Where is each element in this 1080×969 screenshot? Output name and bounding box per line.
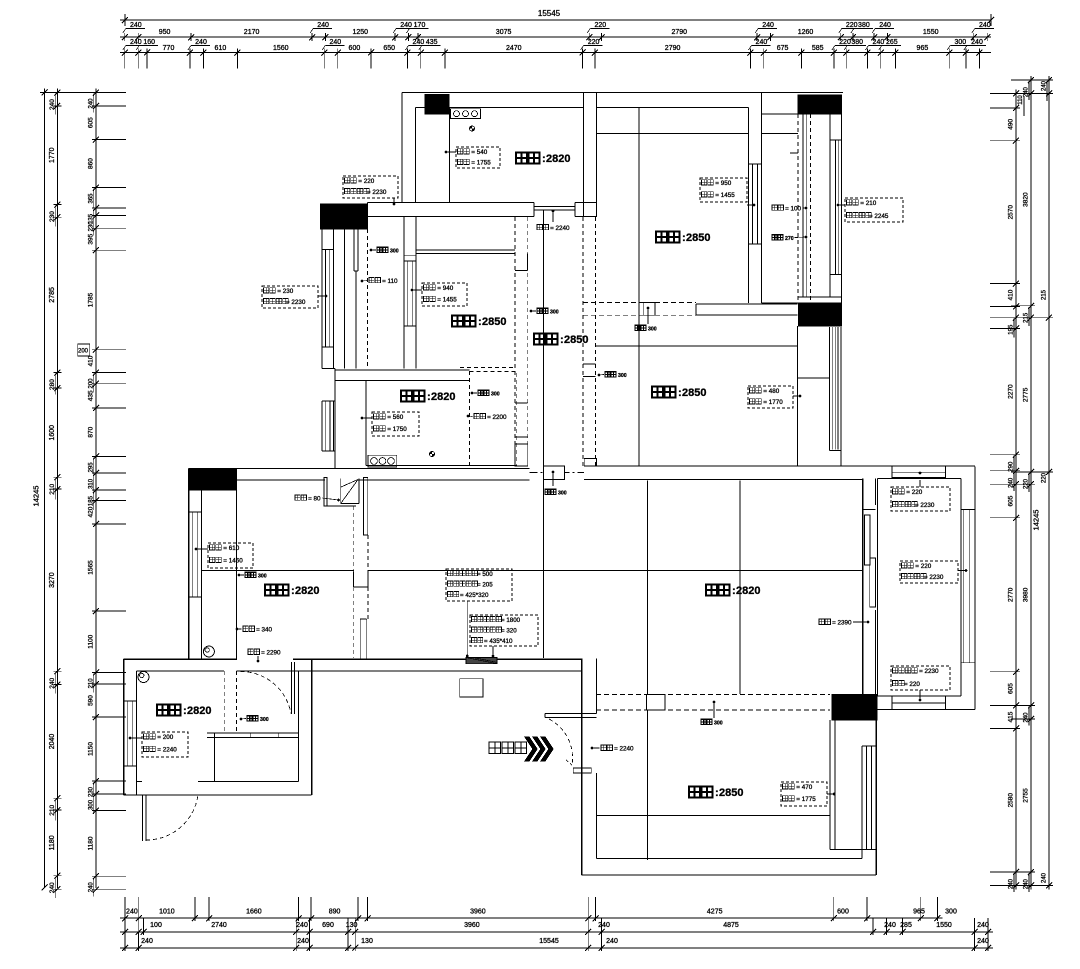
wall: main horizontal band (living top / bedroom2 bottom)	[188, 468, 529, 470]
svg-text:= 540: = 540	[471, 149, 487, 156]
svg-text:1600: 1600	[49, 425, 56, 441]
wall: bottom band	[597, 857, 862, 859]
step near hall2	[584, 459, 596, 466]
study bay window left	[321, 401, 323, 451]
wall: study left	[334, 369, 336, 469]
svg-text:= 220: = 220	[906, 489, 922, 496]
window: bedroom3 right	[862, 745, 876, 747]
beam block	[644, 303, 655, 316]
dimension chain: bottom row 3 total 15545	[120, 947, 993, 949]
right bay window seats	[892, 466, 946, 477]
leader for box1	[393, 198, 395, 204]
svg-text:3270: 3270	[49, 572, 56, 588]
svg-text:2755: 2755	[1023, 788, 1030, 803]
svg-text:240: 240	[598, 922, 610, 929]
svg-text:240: 240	[1009, 878, 1015, 889]
dimension chain: left inner	[95, 89, 97, 889]
svg-text:395: 395	[87, 233, 94, 244]
svg-text:160: 160	[143, 39, 155, 46]
svg-text:240: 240	[1042, 872, 1048, 883]
leader to distribution box 2	[492, 646, 494, 656]
wall: top outer	[402, 92, 843, 94]
svg-text:1180: 1180	[49, 835, 56, 850]
svg-text:3960: 3960	[464, 922, 480, 929]
svg-text:1180: 1180	[87, 836, 94, 850]
kitchen door head	[534, 206, 575, 208]
svg-text:380: 380	[858, 22, 870, 29]
column C5 living top-left	[188, 469, 236, 490]
midleft room bottom dashed	[460, 367, 515, 369]
svg-text:3820: 3820	[1023, 192, 1030, 207]
dimension chain: left total 14245	[44, 89, 46, 889]
dimension chain: right middle	[1030, 76, 1032, 889]
wall: bedroom3 right bay	[829, 720, 831, 850]
window: right bay east	[963, 510, 965, 663]
svg-text:2850: 2850	[682, 387, 706, 399]
free label	[537, 225, 542, 230]
study washbasin	[368, 455, 397, 467]
svg-text:2580: 2580	[1008, 793, 1015, 808]
svg-text:= 100: = 100	[785, 206, 801, 213]
label box	[781, 782, 827, 806]
svg-text:= 2230: = 2230	[915, 502, 935, 509]
svg-text:= 470: = 470	[796, 784, 812, 791]
column C6 bottom-right	[832, 695, 877, 721]
distribution box label 2	[470, 615, 538, 646]
wardrobe dashed rect in study	[469, 371, 516, 465]
label box	[262, 286, 318, 308]
svg-text:300: 300	[558, 491, 567, 497]
svg-text:= 2230: = 2230	[286, 299, 306, 306]
svg-text:240: 240	[297, 938, 309, 945]
window: utility left	[124, 700, 137, 702]
living niche line	[236, 490, 238, 659]
svg-text:240: 240	[49, 677, 56, 688]
svg-text:= 2240: = 2240	[157, 746, 177, 753]
svg-text:= 435*410: = 435*410	[484, 638, 513, 645]
dimension chain: left outer	[56, 89, 58, 889]
svg-text:585: 585	[812, 45, 824, 52]
living room divider line	[739, 481, 741, 694]
wall end block below study door	[515, 444, 528, 466]
svg-text:1785: 1785	[87, 292, 94, 307]
balcony door label tick	[863, 509, 876, 511]
beam label	[245, 572, 250, 577]
study fan symbol	[429, 451, 434, 456]
svg-text:220: 220	[594, 22, 606, 29]
leader for box12	[958, 570, 966, 572]
svg-text:= 610: = 610	[223, 545, 239, 552]
svg-text:240: 240	[126, 909, 138, 916]
svg-text:240: 240	[1009, 477, 1015, 488]
svg-text:675: 675	[777, 45, 789, 52]
free label	[369, 278, 374, 283]
svg-text:605: 605	[1008, 683, 1015, 694]
kitchen ceiling fan symbol	[469, 126, 474, 131]
free label	[248, 649, 253, 654]
wall: balcony/room divider with window	[403, 217, 405, 369]
svg-text:2170: 2170	[244, 29, 260, 36]
svg-text:240: 240	[1024, 878, 1030, 889]
dimension chain: bottom row 2	[120, 931, 993, 933]
svg-text:220: 220	[839, 39, 851, 46]
drain symbol 1	[203, 646, 214, 657]
mid-line notch	[353, 572, 355, 588]
balcony sliding door	[865, 515, 871, 565]
beam label	[635, 325, 640, 330]
entry door leaf	[573, 768, 591, 773]
window: balcony left	[322, 248, 334, 250]
utility door bottom	[142, 795, 144, 841]
kitchen stove counter	[451, 109, 481, 119]
hall centre line	[543, 210, 545, 658]
svg-text:14245: 14245	[32, 486, 41, 507]
svg-text:= 2230: = 2230	[367, 189, 387, 196]
free label	[474, 414, 479, 419]
wall: living/porch bottom band	[124, 658, 237, 660]
svg-text:= 425*320: = 425*320	[460, 592, 489, 599]
walkway top closure	[762, 113, 798, 115]
svg-text:= 80: = 80	[308, 496, 321, 503]
stub right of cabinet	[364, 477, 368, 535]
svg-text:= 2245: = 2245	[869, 213, 889, 220]
svg-text:950: 950	[159, 29, 171, 36]
svg-text:= 480: = 480	[763, 388, 779, 395]
svg-text:590: 590	[87, 695, 94, 706]
svg-text:300: 300	[491, 392, 500, 398]
leader for box14	[827, 793, 834, 795]
svg-text:240: 240	[606, 938, 618, 945]
bedroom1 closet divider / long wall x639	[638, 108, 640, 467]
svg-text:210: 210	[49, 804, 56, 815]
beam label	[545, 489, 550, 494]
svg-text:= 220: = 220	[915, 563, 931, 570]
svg-text:2470: 2470	[506, 45, 522, 52]
svg-text:300: 300	[618, 373, 627, 379]
svg-text:= 500: = 500	[477, 571, 493, 578]
svg-text:420: 420	[87, 506, 94, 517]
svg-text:240: 240	[1042, 80, 1048, 91]
svg-text:605: 605	[87, 117, 94, 128]
svg-text:200: 200	[88, 378, 94, 389]
dimension chain: bottom row 1	[120, 917, 942, 919]
label box	[700, 178, 747, 202]
label box	[343, 176, 398, 198]
svg-text:2775: 2775	[1023, 387, 1030, 402]
svg-text:= 2390: = 2390	[832, 620, 852, 627]
svg-text:300: 300	[390, 249, 399, 255]
svg-text:15545: 15545	[539, 938, 559, 945]
svg-text:2820: 2820	[431, 391, 455, 403]
svg-text:240: 240	[329, 39, 341, 46]
study bottom line	[366, 465, 517, 467]
dimension chain: right inner	[1015, 89, 1017, 889]
bedroom3 wardrobe line	[646, 814, 830, 816]
svg-text:240: 240	[400, 22, 412, 29]
balcony inner lines	[344, 229, 346, 369]
leader for box5	[838, 204, 845, 206]
column C2 top-right	[798, 95, 841, 114]
svg-text:1550: 1550	[923, 29, 939, 36]
label box	[142, 732, 188, 757]
label box	[845, 198, 903, 222]
svg-text:965: 965	[917, 45, 929, 52]
beam label	[537, 308, 542, 313]
svg-text:240: 240	[296, 922, 308, 929]
svg-text:265: 265	[886, 39, 898, 46]
svg-text:2850: 2850	[564, 334, 588, 346]
svg-text:300: 300	[648, 327, 657, 333]
svg-text:240: 240	[977, 938, 989, 945]
label box	[208, 543, 253, 568]
svg-text:1565: 1565	[87, 560, 94, 575]
wall: kitchen right / bedroom1 left	[583, 93, 585, 218]
svg-text:100: 100	[150, 922, 162, 929]
svg-text:3960: 3960	[470, 909, 486, 916]
svg-text:2790: 2790	[665, 45, 681, 52]
svg-text:4875: 4875	[723, 922, 739, 929]
leader to distribution box 1	[466, 601, 468, 656]
svg-text:2850: 2850	[482, 316, 506, 328]
dimension chain: top row 1	[120, 36, 991, 38]
svg-text:300: 300	[260, 717, 269, 723]
svg-text:1550: 1550	[936, 922, 952, 929]
entry door head	[545, 713, 597, 715]
left chain boxed label 200	[78, 344, 90, 356]
svg-text:240: 240	[195, 39, 207, 46]
svg-text:15545: 15545	[538, 9, 561, 18]
svg-text:300: 300	[550, 310, 559, 316]
balcony bottom step	[322, 368, 335, 370]
wall: bedroom2 right	[796, 326, 798, 466]
svg-text:= 110: = 110	[382, 278, 398, 285]
wall: band above balcony column	[320, 203, 367, 205]
column C3 balcony top-left	[320, 204, 367, 229]
svg-text:210: 210	[49, 483, 56, 494]
svg-text:130: 130	[346, 922, 358, 929]
dimension chain: right outer total	[1048, 76, 1050, 889]
svg-text:= 1455: = 1455	[437, 296, 457, 303]
svg-text:2770: 2770	[1008, 587, 1015, 602]
svg-text:230: 230	[49, 211, 56, 222]
svg-text:1010: 1010	[159, 909, 175, 916]
svg-text:240: 240	[49, 99, 56, 110]
svg-text:2570: 2570	[1008, 205, 1015, 220]
label box	[891, 666, 950, 690]
leader for box7	[362, 417, 372, 419]
svg-text:= 1755: = 1755	[471, 159, 491, 166]
dimension chain: top row 2	[120, 52, 991, 54]
svg-text:240: 240	[130, 22, 142, 29]
svg-text:= 1455: = 1455	[715, 192, 735, 199]
svg-text:410: 410	[87, 355, 94, 366]
svg-text:2850: 2850	[686, 232, 710, 244]
svg-text:2270: 2270	[1008, 384, 1015, 399]
svg-text:2820: 2820	[187, 705, 211, 717]
wall: balcony left outer	[321, 229, 323, 369]
svg-text:= 220: = 220	[358, 178, 374, 185]
wall: bedroom1 inner top	[597, 107, 749, 109]
living-utility door	[290, 662, 292, 714]
tick near balcony	[404, 254, 416, 256]
window: living left	[189, 511, 202, 513]
svg-text:195: 195	[1009, 324, 1015, 335]
wall: study top	[335, 369, 469, 371]
svg-text:240: 240	[88, 98, 94, 109]
wall: bedroom divider solid part	[696, 303, 798, 305]
svg-text:860: 860	[87, 158, 94, 169]
right bay outer	[974, 466, 976, 709]
utility dashed beam lines	[223, 671, 225, 733]
svg-text:240: 240	[141, 938, 153, 945]
entry door text	[489, 742, 501, 754]
nook leader	[552, 471, 555, 474]
svg-text:410: 410	[1008, 289, 1015, 300]
svg-text:= 2200: = 2200	[487, 414, 507, 421]
wall: entry right	[581, 659, 583, 875]
svg-text:2790: 2790	[672, 29, 688, 36]
walkway closures	[798, 113, 841, 115]
leader for box3	[446, 151, 456, 153]
leader for box4	[747, 204, 754, 206]
svg-text:2040: 2040	[49, 734, 56, 750]
utility room outer walls	[123, 659, 125, 795]
svg-text:240: 240	[49, 882, 56, 893]
wall: kitchen+hall bottom band	[367, 202, 534, 204]
leader for box2	[318, 295, 326, 297]
svg-text:380: 380	[851, 39, 863, 46]
svg-text:300: 300	[714, 721, 723, 727]
bedroom3 left line	[647, 710, 649, 860]
svg-text:= 950: = 950	[715, 180, 731, 187]
free label	[772, 205, 777, 210]
free label	[243, 626, 248, 631]
free label	[295, 495, 300, 500]
svg-text:240: 240	[756, 39, 768, 46]
label box	[748, 386, 793, 408]
free label	[601, 745, 606, 750]
svg-text:1250: 1250	[353, 29, 369, 36]
porch: doorbell box	[460, 679, 483, 697]
svg-text:170: 170	[414, 22, 426, 29]
svg-text:415: 415	[1008, 711, 1015, 722]
utility inner partition	[207, 732, 298, 734]
svg-text:2740: 2740	[211, 922, 227, 929]
beam block 2	[646, 695, 664, 710]
leader for box6	[412, 289, 422, 291]
bedroom2 door stub	[583, 363, 596, 365]
beam label	[377, 247, 382, 252]
free label	[819, 619, 824, 624]
wall: living right / balcony	[862, 478, 864, 694]
svg-text:4275: 4275	[707, 909, 723, 916]
svg-text:= 2290: = 2290	[261, 650, 281, 657]
svg-text:= 1800: = 1800	[501, 617, 521, 624]
svg-text:690: 690	[322, 922, 334, 929]
svg-text:2820: 2820	[546, 153, 570, 165]
svg-text:965: 965	[913, 909, 925, 916]
svg-text:300: 300	[945, 909, 957, 916]
svg-text:215: 215	[1024, 312, 1030, 323]
wall: midleft room top	[416, 249, 515, 251]
entry/dining divider line	[647, 481, 649, 694]
wall: kitchen left inner	[415, 108, 417, 204]
svg-text:1560: 1560	[273, 45, 289, 52]
svg-text:2820: 2820	[736, 585, 760, 597]
right bay inner rect	[877, 477, 961, 479]
room label 2820	[516, 153, 527, 164]
svg-text:= 1750: = 1750	[387, 426, 407, 433]
svg-text:365: 365	[88, 193, 94, 204]
room label 2820	[265, 585, 276, 596]
room label 2820	[157, 705, 168, 716]
porch: distribution box on wall	[466, 658, 497, 664]
beam dashed between bedrooms	[583, 302, 696, 304]
svg-text:= 320: = 320	[501, 628, 517, 635]
svg-text:600: 600	[837, 909, 849, 916]
shoe cabinet with folding door	[324, 478, 327, 507]
window: midleft room west	[404, 260, 416, 262]
svg-text:230: 230	[88, 786, 94, 797]
svg-text:435: 435	[426, 39, 438, 46]
svg-text:220: 220	[1042, 472, 1048, 483]
leader for box9	[130, 737, 142, 739]
room label 2850	[689, 787, 700, 798]
drain symbol 2	[138, 672, 149, 683]
svg-text:240: 240	[762, 22, 774, 29]
svg-text:610: 610	[215, 45, 227, 52]
column C4 right middle	[799, 303, 842, 326]
svg-text:1150: 1150	[87, 742, 94, 756]
svg-text:285: 285	[900, 922, 912, 929]
svg-text:1100: 1100	[87, 634, 94, 648]
living room mid line	[202, 570, 354, 572]
svg-text:= 220: = 220	[904, 681, 920, 688]
bay window mid right	[797, 377, 829, 379]
svg-text:240: 240	[873, 39, 885, 46]
svg-text:240: 240	[979, 22, 991, 29]
svg-text:2820: 2820	[295, 585, 319, 597]
svg-text:240: 240	[413, 39, 425, 46]
svg-text:= 205: = 205	[477, 582, 493, 589]
svg-text:220: 220	[1024, 478, 1030, 489]
svg-text:240: 240	[977, 922, 989, 929]
window: bedroom1 right wall	[748, 163, 761, 165]
wall: bedroom3 right lower	[861, 849, 863, 858]
study door stubs	[515, 436, 528, 438]
leader for box10	[793, 395, 800, 397]
svg-text:240: 240	[1024, 712, 1030, 723]
label box	[900, 561, 958, 583]
svg-text:185: 185	[88, 495, 94, 506]
entry arrow text zone	[525, 737, 537, 761]
svg-text:240: 240	[884, 922, 896, 929]
svg-text:1260: 1260	[798, 29, 814, 36]
svg-text:= 2240: = 2240	[550, 225, 570, 232]
svg-text:605: 605	[1008, 495, 1015, 506]
svg-text:= 2240: = 2240	[614, 746, 634, 753]
svg-text:240: 240	[88, 882, 94, 893]
svg-text:240: 240	[130, 39, 142, 46]
leader for box11	[919, 480, 921, 487]
svg-text:870: 870	[87, 426, 94, 437]
hall notch	[527, 254, 529, 271]
distribution box label 1	[446, 569, 512, 601]
svg-text:210: 210	[88, 678, 94, 689]
svg-text:= 560: = 560	[387, 414, 403, 421]
room label 2850	[452, 316, 463, 327]
svg-text:435: 435	[87, 390, 94, 401]
